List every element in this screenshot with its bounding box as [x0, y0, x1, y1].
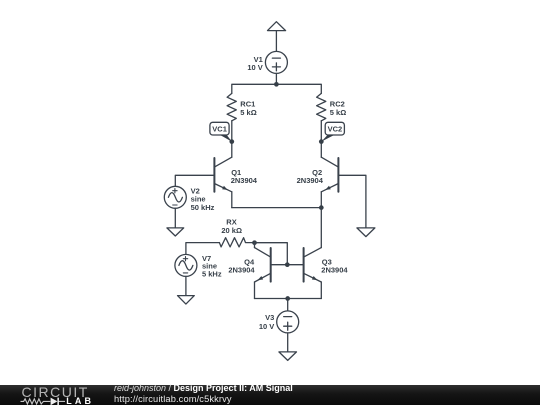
wire V2 to ground — [174, 208, 176, 228]
resistor RX — [219, 238, 254, 247]
wire RC1 to Q1 collector — [231, 121, 233, 157]
junction dot VC1 — [229, 139, 234, 144]
wire RC2 to Q2 collector — [320, 121, 322, 157]
label V7 — [202, 254, 222, 279]
svg-text:2N3904: 2N3904 — [228, 266, 255, 275]
junction dot bases — [285, 262, 290, 267]
wire V2 to Q1 base — [175, 175, 214, 186]
wire Q4 collector up — [254, 243, 256, 248]
junction dot RX/Q4 — [252, 240, 257, 245]
resistor RC2 — [317, 93, 326, 120]
node flag VC2 — [321, 122, 344, 141]
ground V7 — [178, 296, 195, 305]
svg-text:2N3904: 2N3904 — [231, 176, 258, 185]
svg-text:VC1: VC1 — [212, 125, 227, 134]
wire Q3 emitter down — [320, 282, 322, 299]
svg-text:5 kΩ: 5 kΩ — [330, 108, 346, 117]
voltage source V3 — [277, 311, 299, 333]
footer bar — [0, 385, 540, 405]
wire V7 to ground — [185, 276, 187, 295]
transistor Q1 — [214, 157, 231, 192]
junction dot bottom rail — [285, 296, 290, 301]
svg-text:50 kHz: 50 kHz — [191, 203, 215, 212]
svg-text:5 kΩ: 5 kΩ — [240, 108, 256, 117]
transistor Q4 — [255, 248, 271, 282]
wire Q2 base to ground — [338, 175, 366, 228]
label RC1 — [240, 100, 256, 118]
label V1 value — [247, 55, 262, 72]
junction dot VC2 — [319, 139, 324, 144]
transistor Q2 — [321, 157, 338, 192]
svg-text:20 kΩ: 20 kΩ — [221, 226, 242, 235]
resistor RC1 — [227, 93, 236, 120]
voltage source V7 — [175, 254, 197, 276]
wire Q2 emitter down — [320, 192, 322, 208]
voltage source V1 — [265, 51, 287, 73]
ground right — [357, 228, 375, 237]
ground V2 — [167, 228, 184, 236]
wire top rail — [232, 84, 321, 93]
label Q1 — [231, 168, 258, 185]
wire collector-base tie — [255, 243, 288, 265]
CircuitLab logo — [0, 385, 110, 405]
svg-text:5 kHz: 5 kHz — [202, 270, 222, 279]
wire Q4 emitter down — [254, 282, 256, 299]
ground V3 — [279, 352, 297, 361]
label Q4 — [228, 257, 255, 274]
power flag arrow (VCC) — [268, 22, 286, 52]
svg-text:V3: V3 — [265, 313, 274, 322]
label RX — [221, 218, 242, 235]
svg-text:2N3904: 2N3904 — [297, 176, 324, 185]
voltage source V2 — [164, 186, 186, 208]
wire V7 to RX — [186, 243, 220, 255]
wire bottom rail — [255, 298, 322, 300]
node flag VC1 — [210, 122, 232, 141]
wire Q4/Q3 base link — [271, 264, 304, 266]
label Q2 — [297, 168, 324, 185]
svg-text:10 V: 10 V — [247, 63, 262, 72]
label V2 — [191, 187, 215, 212]
label RC2 — [330, 100, 346, 118]
label Q3 — [321, 257, 348, 274]
transistor Q3 — [304, 248, 322, 282]
wire rail to V3 — [287, 299, 289, 311]
wire emitters to Q3 collector — [320, 208, 322, 248]
junction dot rail/V1 — [274, 82, 279, 87]
wire V3 to ground — [287, 333, 289, 352]
svg-text:VC2: VC2 — [328, 125, 343, 134]
svg-text:10 V: 10 V — [259, 322, 274, 331]
wire Q1 emitter down — [231, 192, 233, 208]
label V3 — [259, 313, 274, 331]
wire emitters rail — [232, 207, 321, 209]
svg-text:2N3904: 2N3904 — [321, 266, 348, 275]
svg-text:LAB: LAB — [66, 396, 94, 405]
junction dot emitters — [319, 205, 324, 210]
wire V1 to rail — [275, 73, 277, 84]
